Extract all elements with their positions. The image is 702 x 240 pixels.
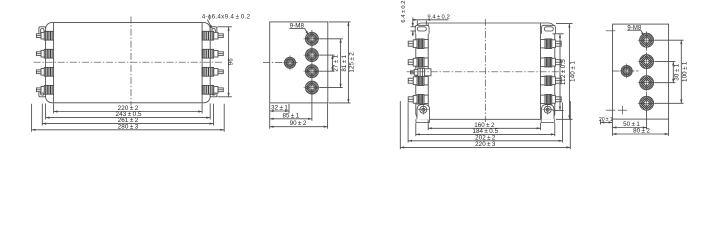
view3 ground terminal stud [425, 69, 431, 76]
view3 vertical centerline [484, 19, 486, 122]
view3 dimension 202+-2 [408, 140, 562, 142]
view2 dimension 81+-1 [340, 39, 342, 88]
svg-text:20 ± 1: 20 ± 1 [599, 117, 613, 123]
view3 dimension 160+-2 [428, 127, 540, 129]
view4 top mounting tab tick [606, 30, 616, 32]
svg-text:85 ± 1: 85 ± 1 [283, 112, 300, 119]
view1 left terminal 1 [44, 31, 53, 40]
view3 left terminal 1 [424, 40, 428, 48]
view3 right terminal 1 [541, 40, 546, 48]
view3 right dimension extension lines [553, 33, 564, 35]
view1 bottom-right mounting tab with slot [210, 88, 217, 97]
view1 dimension 243+-0.5 [46, 117, 211, 119]
view1 filter body outline [46, 23, 211, 103]
view3 dimension 220+-3 [400, 146, 570, 148]
view1 left inner edge line [53, 23, 55, 102]
view3 left terminal 4 [424, 95, 428, 103]
view4 dimension 80+-2 [613, 133, 669, 135]
view1 left terminal 2 [44, 49, 53, 58]
view1 dimension 280+-3 [32, 129, 225, 131]
view4 dimension 20+-1 [600, 121, 612, 123]
view1 vertical centerline [130, 17, 132, 106]
view3 horizontal centerline [407, 71, 561, 73]
view4 terminal column centerline [646, 32, 648, 113]
view3 top-left mounting tab with slot [415, 25, 429, 34]
svg-text:27 ± 1: 27 ± 1 [333, 54, 340, 71]
view3 bottom-left mounting slot hole [417, 105, 430, 120]
svg-text:4-ϕ6.4x9.4 ± 0.2: 4-ϕ6.4x9.4 ± 0.2 [202, 13, 251, 20]
view3 bottom-right foot [541, 119, 555, 122]
view3 filter body outline [416, 23, 555, 119]
view3 dimension 112+-0.5 [559, 34, 561, 111]
view3 left terminal 3 [424, 77, 428, 85]
view2 dimension 85+-1 [270, 118, 312, 120]
svg-text:81 ± 1: 81 ± 1 [341, 54, 348, 71]
svg-text:80 ± 2: 80 ± 2 [633, 128, 650, 135]
view3 left inner edge line [427, 23, 429, 119]
view2 terminal column centerline [311, 30, 313, 96]
svg-text:100 ± 1: 100 ± 1 [682, 61, 689, 82]
view2 bottom dimension extension lines [269, 103, 271, 128]
view3 right terminal 4 [541, 95, 546, 103]
view4 side body outline [613, 24, 669, 119]
view4 dimension 30+-1 [672, 62, 674, 83]
view3 bottom-left foot [416, 119, 430, 122]
view3 left terminal 2 [424, 58, 428, 66]
svg-text:6.4 ± 0.2: 6.4 ± 0.2 [401, 0, 407, 22]
view1 right terminal 1 [202, 31, 214, 40]
view3 top-right mounting tab with slot [542, 25, 556, 34]
view1 bottom dimension extension lines [53, 103, 55, 113]
view4 right dimension extension lines [655, 39, 684, 41]
view3 dimension 184+-0.5 [416, 133, 555, 135]
view3 right terminal 2 [541, 58, 546, 66]
view4 bottom dimension extension lines [599, 120, 601, 125]
view2 dimension 125+-2 [347, 22, 349, 103]
view1 right terminal 2 [202, 49, 214, 58]
svg-text:30 ± 1: 30 ± 1 [674, 63, 681, 80]
view1 right terminal 3 [202, 67, 214, 76]
view3 bottom-right mounting slot hole [541, 105, 554, 120]
svg-text:32 ± 1: 32 ± 1 [271, 105, 288, 112]
view1 right inner edge line [201, 23, 203, 102]
svg-text:220 ± 3: 220 ± 3 [475, 141, 496, 148]
view1 left terminal 3 [44, 67, 53, 76]
view4 bottom mounting tab tick [606, 109, 616, 111]
view1 dimension 261+-2 [42, 123, 213, 125]
view1 bottom-left mounting tab with slot [39, 88, 46, 97]
svg-text:90 ± 2: 90 ± 2 [290, 120, 307, 127]
view3 bottom dimension extension lines [427, 120, 429, 130]
view2 dimension 90+-2 [270, 126, 328, 128]
svg-text:125 ± 2: 125 ± 2 [349, 52, 356, 73]
view1 right terminal 4 [202, 85, 214, 94]
view4 ground terminal centerline [612, 70, 639, 72]
view1 dimension 220+-2 [54, 111, 203, 113]
svg-text:96: 96 [228, 58, 235, 66]
view2 side body outline [270, 22, 328, 103]
view2 dimension 27+-1 [331, 55, 333, 71]
view4 dimension 100+-1 [680, 40, 682, 103]
view3 right inner edge line [540, 23, 542, 119]
view3 right terminal 3 [541, 77, 546, 85]
view2 right dimension extension lines [329, 21, 351, 23]
svg-text:112 ± 0.5: 112 ± 0.5 [560, 59, 567, 85]
view1 left terminal 4 [44, 85, 53, 94]
view1 top-right mounting tab with slot [210, 27, 217, 36]
view4 bottom slot center mark [618, 109, 627, 111]
svg-text:140 ± 1: 140 ± 1 [570, 61, 577, 82]
view4 dimension 50+-1 [613, 127, 647, 129]
view2 dimension 32+-1 [270, 110, 289, 112]
svg-text:280 ± 3: 280 ± 3 [118, 123, 139, 130]
view2 ground terminal centerline [263, 62, 299, 64]
view3 dimension 140+-1 [568, 24, 570, 120]
view1 top-left mounting tab with slot [39, 27, 46, 36]
view1 horizontal centerline [34, 61, 223, 63]
view1 height dimension 96 [218, 26, 232, 28]
